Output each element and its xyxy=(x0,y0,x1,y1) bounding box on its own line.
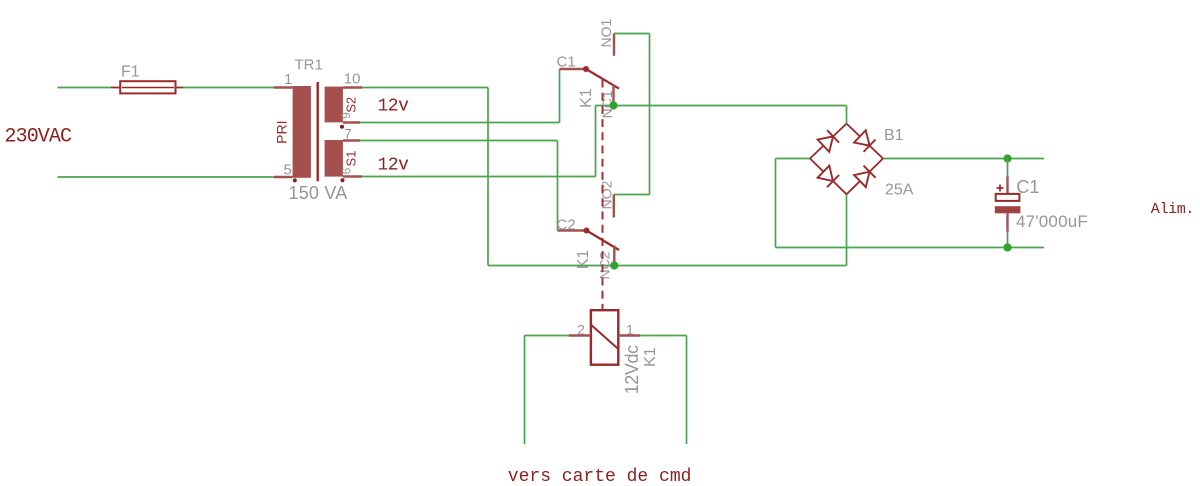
junction NC2 xyxy=(610,261,618,269)
capacitor C1 bottom pin xyxy=(1006,213,1008,232)
contact C1 pivot xyxy=(583,66,589,72)
wire vertical up to C1 xyxy=(559,69,561,123)
transformer primary winding PRI xyxy=(293,86,311,178)
wire NC1 junction to bridge top corner xyxy=(614,105,847,107)
relay linkage dashed line xyxy=(602,80,604,311)
pin NC2 stub xyxy=(613,245,615,265)
capacitor C1 plus sign xyxy=(997,187,1004,189)
svg-text:230VAC: 230VAC xyxy=(5,125,73,148)
relay contact C1 pin stub xyxy=(560,68,587,70)
capacitor C1 bottom plate xyxy=(995,206,1021,213)
junction cap bottom xyxy=(1003,243,1011,251)
transformer secondary winding S1 xyxy=(325,140,343,177)
wire S2 pin9 to contact C1 xyxy=(360,122,560,124)
svg-text:47'000uF: 47'000uF xyxy=(1016,212,1088,231)
transformer core xyxy=(317,82,319,181)
relay coil diagonal xyxy=(592,325,618,348)
svg-text:12v: 12v xyxy=(378,155,410,175)
svg-text:K1: K1 xyxy=(575,250,592,270)
wire 230VAC bottom from left to transformer pin 5 xyxy=(57,176,273,178)
diode D1 (left to top) of bridge B1 xyxy=(810,124,847,159)
transformer S1 pin 6 stub xyxy=(343,175,362,177)
svg-text:1: 1 xyxy=(626,322,634,338)
wire vertical x488 down xyxy=(487,88,489,266)
capacitor C1 top plate xyxy=(996,194,1020,201)
wire 230VAC top from left to fuse xyxy=(57,87,111,89)
transformer S2 pin 9 stub xyxy=(343,121,360,123)
svg-text:NO1: NO1 xyxy=(598,18,614,47)
svg-text:2: 2 xyxy=(577,322,585,338)
diode D3 (left to bottom) of bridge B1 xyxy=(810,159,847,195)
svg-text:B1: B1 xyxy=(884,127,904,144)
junction NC1 xyxy=(609,101,617,109)
wire to NO2 xyxy=(614,194,650,196)
svg-text:C2: C2 xyxy=(557,216,576,233)
origin dot S1 xyxy=(341,178,345,182)
pin NO2 stub xyxy=(613,195,615,218)
wire coil left down xyxy=(524,336,526,445)
wire riser up to NC1 xyxy=(595,106,597,177)
svg-text:F1: F1 xyxy=(121,64,140,81)
svg-text:NO2: NO2 xyxy=(599,180,615,209)
wire coil pin 2 left xyxy=(525,335,569,337)
svg-text:7: 7 xyxy=(344,126,352,142)
contact C2 pivot xyxy=(584,228,590,234)
wire NO1-NO2 vertical xyxy=(649,34,651,195)
wire coil right down xyxy=(686,336,688,445)
transformer S1 pin 7 stub xyxy=(343,139,360,141)
svg-text:PRI: PRI xyxy=(273,121,289,144)
wire S1 pin6 to riser xyxy=(362,176,596,178)
pin NO1 stub xyxy=(613,34,615,56)
contact C2 lever xyxy=(587,231,620,251)
svg-text:12v: 12v xyxy=(378,96,410,116)
diode D2 (top to right) of bridge B1 xyxy=(847,124,884,159)
transformer TR1 pin 5 stub xyxy=(274,176,293,178)
svg-text:5: 5 xyxy=(284,162,292,179)
relay contact C2 pin stub xyxy=(558,229,587,231)
wire DC minus vertical xyxy=(775,159,777,248)
wire DC minus horizontal to Alim xyxy=(776,247,1045,249)
wire coil pin 1 right xyxy=(640,335,686,337)
wire bridge bottom vertex down to NC2 net xyxy=(846,194,848,265)
svg-text:10: 10 xyxy=(344,71,361,88)
svg-text:Alim.: Alim. xyxy=(1151,201,1194,218)
wire S2 pin10 to corner xyxy=(362,87,488,89)
origin dot S2 xyxy=(340,125,344,129)
pin NC1 stub xyxy=(612,84,614,105)
svg-text:150 VA: 150 VA xyxy=(289,183,348,203)
svg-text:25A: 25A xyxy=(885,182,914,199)
diode D4 (bottom to right) of bridge B1 xyxy=(847,159,884,195)
wire NC2 horizontal xyxy=(488,265,847,267)
wire bridge right to cap C1 and Alim xyxy=(883,158,1044,160)
svg-text:NC2: NC2 xyxy=(597,251,613,279)
transformer S2 pin 10 stub xyxy=(343,86,362,88)
wire bridge left vertex to left xyxy=(776,158,811,160)
svg-text:6: 6 xyxy=(339,167,353,174)
svg-text:1: 1 xyxy=(284,71,292,88)
svg-text:K1: K1 xyxy=(578,88,595,108)
svg-text:C1: C1 xyxy=(557,54,576,71)
svg-text:TR1: TR1 xyxy=(295,57,323,74)
svg-text:12Vdc: 12Vdc xyxy=(622,345,642,394)
relay coil pin 1 stub xyxy=(618,334,640,336)
svg-text:vers carte de cmd: vers carte de cmd xyxy=(508,467,692,486)
transformer secondary winding S2 xyxy=(325,87,343,123)
contact C1 lever xyxy=(586,69,619,89)
svg-text:S1: S1 xyxy=(344,151,359,167)
relay coil K1 box xyxy=(591,310,618,365)
wire NO1 to right xyxy=(614,33,650,35)
wire riser to NC1 junction xyxy=(596,105,614,107)
origin dot PRI pin 5 xyxy=(293,178,297,182)
fuse F1 xyxy=(111,81,183,93)
transformer TR1 pin 1 stub xyxy=(274,86,293,88)
svg-text:S2: S2 xyxy=(344,97,359,113)
wire fuse to transformer pin 1 xyxy=(183,87,274,89)
wire S1 pin7 to contact C2 xyxy=(360,140,558,142)
svg-text:K1: K1 xyxy=(642,347,659,367)
wire down to bridge top vertex xyxy=(846,106,848,124)
wire vertical down to C2 xyxy=(557,141,559,231)
capacitor C1 top pin xyxy=(1007,159,1009,177)
junction cap top xyxy=(1003,154,1011,162)
relay coil pin 2 stub xyxy=(569,334,591,336)
